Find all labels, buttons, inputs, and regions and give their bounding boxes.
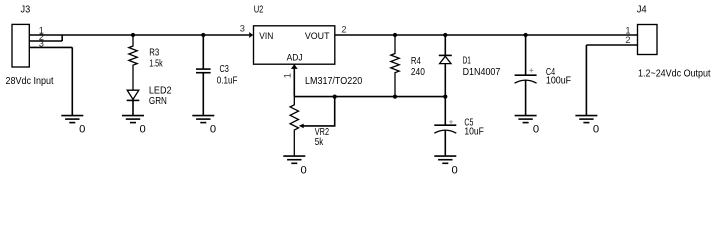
svg-text:0: 0 xyxy=(593,124,599,136)
ground under VR2 xyxy=(283,156,305,163)
potentiometer VR2 xyxy=(290,97,298,156)
svg-text:VOUT: VOUT xyxy=(305,31,330,41)
svg-text:2: 2 xyxy=(341,24,346,34)
svg-text:D1N4007: D1N4007 xyxy=(463,67,501,78)
wire VOUT rail to J4 xyxy=(335,34,638,36)
svg-text:1: 1 xyxy=(282,73,292,78)
op-amp regulator U2 box xyxy=(254,26,335,64)
LED LED2 xyxy=(127,90,140,115)
ground under C5 xyxy=(434,156,456,163)
svg-text:10uF: 10uF xyxy=(464,126,484,137)
svg-text:0: 0 xyxy=(140,123,146,135)
svg-text:0.1uF: 0.1uF xyxy=(217,75,238,86)
svg-text:R3: R3 xyxy=(149,47,159,58)
svg-text:ADJ: ADJ xyxy=(287,53,303,63)
connector J4 xyxy=(638,25,658,55)
svg-text:5k: 5k xyxy=(315,137,324,148)
C5 plus sign xyxy=(449,120,453,124)
C4 plus sign xyxy=(529,68,533,72)
wire J3 pin3 to ground xyxy=(29,47,72,115)
svg-text:U2: U2 xyxy=(254,5,264,16)
wire ADJ net horizontal xyxy=(294,96,445,98)
node junction dot at C3 top xyxy=(201,33,205,37)
svg-text:J4: J4 xyxy=(637,5,647,16)
U2 VIN input arrow xyxy=(249,32,253,38)
svg-text:0: 0 xyxy=(210,123,216,135)
wire J3 pin2 to pin1 net xyxy=(29,35,62,41)
svg-text:C3: C3 xyxy=(220,64,230,75)
connector J3 xyxy=(12,24,29,67)
svg-text:VIN: VIN xyxy=(259,31,273,41)
VR2 wiper arrow xyxy=(299,124,304,129)
capacitor C3 xyxy=(196,35,211,116)
svg-text:0: 0 xyxy=(79,123,85,135)
node junction dot at D1 top xyxy=(443,33,447,37)
svg-text:1.5k: 1.5k xyxy=(149,59,163,70)
node junction dot at R4 top xyxy=(393,33,397,37)
resistor R3 xyxy=(129,35,137,90)
wire main +28V rail (J3 pin1 to VIN) xyxy=(29,34,249,36)
svg-text:LM317/TO220: LM317/TO220 xyxy=(305,76,362,87)
svg-text:GRN: GRN xyxy=(149,96,167,107)
svg-text:D1: D1 xyxy=(463,56,471,67)
wire ADJ pin down xyxy=(293,64,295,96)
svg-text:0: 0 xyxy=(301,164,307,176)
ground under J4 xyxy=(575,116,597,123)
svg-text:28Vdc Input: 28Vdc Input xyxy=(6,76,54,87)
svg-text:J3: J3 xyxy=(21,4,31,15)
svg-text:2: 2 xyxy=(625,35,630,45)
wire VR2 wiper xyxy=(303,97,334,126)
svg-text:0: 0 xyxy=(533,123,539,135)
U2 ADJ input arrow xyxy=(291,64,298,69)
node junction dot at D1 bottom / C5 top xyxy=(443,95,447,99)
capacitor C5 (polarized) xyxy=(434,97,456,156)
svg-text:240: 240 xyxy=(411,67,425,78)
capacitor C4 (polarized) xyxy=(515,35,537,116)
node junction dot VR2 wiper tap xyxy=(333,95,337,99)
node junction dot at R4 bottom xyxy=(393,95,397,99)
svg-text:1.2~24Vdc Output: 1.2~24Vdc Output xyxy=(638,68,711,79)
svg-text:0: 0 xyxy=(452,164,458,176)
ground under C3 xyxy=(192,116,214,123)
ground under J3 xyxy=(61,116,83,123)
svg-text:3: 3 xyxy=(240,24,245,34)
svg-text:R4: R4 xyxy=(411,56,421,67)
wire J4 pin2 to ground xyxy=(586,45,637,116)
ground under LED2 xyxy=(122,116,144,123)
svg-text:100uF: 100uF xyxy=(546,75,571,86)
node junction dot at C4 top xyxy=(524,33,528,37)
ground under C4 xyxy=(515,116,537,123)
node junction dot at R3 top xyxy=(131,33,135,37)
svg-text:1: 1 xyxy=(625,25,630,35)
diode D1 xyxy=(439,35,452,97)
resistor R4 xyxy=(391,35,399,97)
